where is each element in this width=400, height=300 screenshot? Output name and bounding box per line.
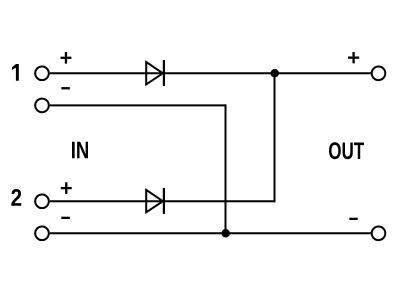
plus sign input 2 bbox=[61, 182, 72, 194]
minus sign input 2 bbox=[61, 217, 70, 219]
label 2 bbox=[11, 189, 21, 206]
terminal circle input 2 plus bbox=[35, 195, 49, 209]
wire: input 2 plus vertical segment up to top node bbox=[274, 73, 276, 202]
wire: bottom minus rail y=233.3 bbox=[50, 232, 371, 234]
plus sign input 1 bbox=[61, 52, 72, 64]
label 1 bbox=[12, 64, 19, 81]
plus sign output bbox=[348, 52, 359, 63]
minus sign output bbox=[349, 218, 357, 220]
terminal circle output plus bbox=[372, 67, 386, 81]
diode D2 triangle bbox=[146, 190, 163, 212]
terminal circle input 1 minus bbox=[35, 99, 49, 113]
terminal circle output minus bbox=[372, 227, 386, 241]
terminal circle input 1 plus bbox=[35, 67, 49, 81]
diode D1 cathode bar bbox=[163, 60, 165, 86]
wire: input 1 plus rail y=73.5 bbox=[50, 72, 371, 74]
label IN bbox=[72, 142, 88, 159]
label OUT bbox=[329, 142, 364, 159]
diode D2 cathode bar bbox=[163, 188, 165, 214]
diode D1 triangle bbox=[146, 62, 163, 84]
wire: input 1 minus vertical segment down to bottom node bbox=[225, 104, 227, 233]
junction dot top node bbox=[271, 69, 280, 78]
wire: input 2 plus horizontal segment through diode D2 bbox=[50, 200, 276, 202]
minus sign input 1 bbox=[61, 87, 70, 89]
wire: input 1 minus horizontal segment bbox=[50, 104, 227, 106]
terminal circle input 2 minus bbox=[35, 227, 49, 241]
junction dot bottom node bbox=[221, 229, 230, 238]
